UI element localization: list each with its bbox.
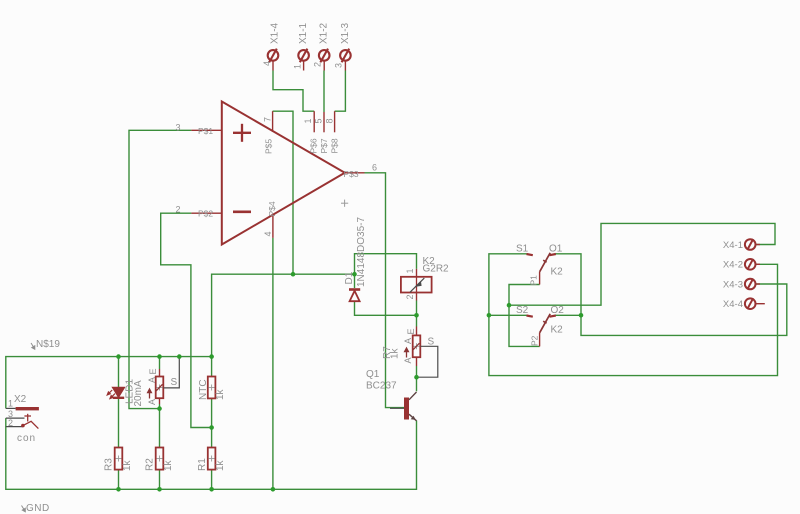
svg-text:E: E <box>406 328 416 334</box>
svg-text:GND: GND <box>26 503 50 514</box>
svg-text:A: A <box>147 377 157 383</box>
svg-text:1k: 1k <box>390 347 401 359</box>
svg-text:1: 1 <box>405 268 415 273</box>
svg-text:X4-1: X4-1 <box>723 240 743 251</box>
svg-text:2: 2 <box>176 205 181 215</box>
svg-text:2: 2 <box>8 418 13 428</box>
svg-text:7: 7 <box>263 117 273 122</box>
svg-text:1k: 1k <box>215 459 226 471</box>
svg-text:1k: 1k <box>215 388 226 400</box>
svg-text:1N4148DO35-7: 1N4148DO35-7 <box>356 217 367 287</box>
svg-text:3: 3 <box>176 123 181 133</box>
svg-text:G2R2: G2R2 <box>423 264 450 275</box>
svg-text:S1: S1 <box>516 244 529 255</box>
svg-text:1k: 1k <box>163 459 174 471</box>
svg-text:X4-4: X4-4 <box>723 299 743 310</box>
svg-text:Q1: Q1 <box>366 369 380 380</box>
svg-text:6: 6 <box>372 163 377 173</box>
svg-text:X4-2: X4-2 <box>723 260 743 271</box>
svg-text:2: 2 <box>405 294 415 299</box>
svg-text:8: 8 <box>325 118 335 123</box>
svg-text:1: 1 <box>8 399 13 409</box>
svg-text:A: A <box>403 338 413 344</box>
svg-text:1k: 1k <box>122 459 133 471</box>
svg-text:P$4: P$4 <box>267 201 277 216</box>
svg-text:P$7: P$7 <box>319 138 329 153</box>
svg-text:R1: R1 <box>197 458 208 471</box>
svg-text:2: 2 <box>313 62 323 67</box>
svg-text:5: 5 <box>314 118 324 123</box>
svg-text:BC237: BC237 <box>366 381 397 392</box>
svg-text:P$8: P$8 <box>330 138 340 153</box>
svg-text:4: 4 <box>263 231 273 236</box>
svg-text:S: S <box>428 337 435 348</box>
svg-text:K2: K2 <box>551 325 564 336</box>
svg-text:D1: D1 <box>344 271 355 284</box>
svg-text:P$1: P$1 <box>198 126 213 136</box>
svg-text:P$6: P$6 <box>309 138 319 153</box>
svg-text:R2: R2 <box>145 458 156 471</box>
svg-text:A: A <box>403 357 413 363</box>
svg-text:P$5: P$5 <box>264 139 274 154</box>
svg-text:X1-4: X1-4 <box>270 22 281 44</box>
svg-text:A: A <box>147 399 157 405</box>
svg-text:R3: R3 <box>104 458 115 471</box>
svg-text:O1: O1 <box>549 244 563 255</box>
svg-text:X2: X2 <box>14 394 27 405</box>
svg-text:NTC: NTC <box>198 379 209 400</box>
svg-text:1: 1 <box>293 64 303 69</box>
svg-text:4: 4 <box>262 61 272 66</box>
svg-text:con: con <box>17 433 36 444</box>
svg-text:X1-1: X1-1 <box>298 22 309 44</box>
svg-text:P$2: P$2 <box>198 209 213 219</box>
svg-text:N$19: N$19 <box>36 339 60 350</box>
svg-text:E: E <box>148 368 158 374</box>
svg-text:P$3: P$3 <box>344 169 359 179</box>
svg-text:P2: P2 <box>530 335 540 346</box>
svg-text:3: 3 <box>334 63 344 68</box>
svg-text:20mA: 20mA <box>133 380 144 406</box>
svg-text:O2: O2 <box>551 305 565 316</box>
svg-text:X1-2: X1-2 <box>319 22 330 44</box>
svg-text:S2: S2 <box>516 305 529 316</box>
svg-text:1: 1 <box>303 118 313 123</box>
svg-text:K2: K2 <box>551 267 564 278</box>
svg-text:X1-3: X1-3 <box>340 22 351 44</box>
svg-text:P1: P1 <box>529 275 539 286</box>
svg-text:S: S <box>171 377 178 388</box>
svg-text:X4-3: X4-3 <box>723 279 743 290</box>
